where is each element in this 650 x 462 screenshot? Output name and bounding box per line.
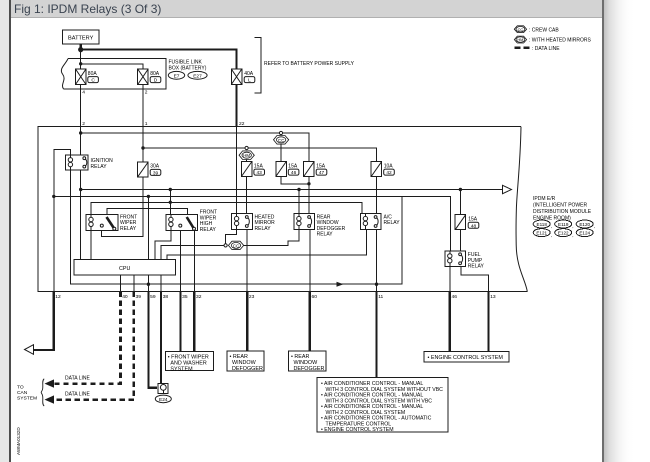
svg-text:DEFOGGER: DEFOGGER xyxy=(232,366,263,372)
battery B1 xyxy=(63,30,100,44)
node fusible box branch xyxy=(79,62,82,65)
svg-text:RELAY: RELAY xyxy=(384,220,401,226)
svg-text:DISTRIBUTION MODULE: DISTRIBUTION MODULE xyxy=(533,209,592,215)
wire bus A to rear defogger relay coil xyxy=(298,190,300,214)
svg-text:35: 35 xyxy=(182,294,188,300)
box front wiper and washer system xyxy=(166,352,214,373)
svg-text:IPDM E/R: IPDM E/R xyxy=(533,196,556,202)
label to can system xyxy=(17,385,37,402)
connector E122 xyxy=(555,229,574,238)
wire fusible C to IPDM pin 2 xyxy=(80,85,82,127)
svg-text:L: L xyxy=(248,78,251,84)
svg-text:BATTERY: BATTERY xyxy=(68,36,94,42)
wire ignition contact to bus A xyxy=(80,170,82,190)
svg-text:RELAY: RELAY xyxy=(317,232,334,238)
svg-text:46: 46 xyxy=(452,294,458,300)
node pin2 branch xyxy=(79,131,82,134)
svg-text:E124: E124 xyxy=(579,231,590,236)
svg-text:,: , xyxy=(572,224,573,229)
left gray strip xyxy=(0,0,9,462)
wire CPU to pin 38 xyxy=(160,275,162,292)
svg-text:: DATA LINE: : DATA LINE xyxy=(532,46,560,52)
svg-text:15A: 15A xyxy=(468,217,478,223)
svg-text:CAN: CAN xyxy=(17,390,28,396)
svg-text:59: 59 xyxy=(150,294,156,300)
wire front wiper relay coil to CPU xyxy=(90,230,92,259)
brace for can system xyxy=(41,379,44,406)
svg-text:HM: HM xyxy=(243,153,250,158)
svg-text:11: 11 xyxy=(378,294,383,300)
svg-text:CC: CC xyxy=(518,27,524,32)
front wiper high relay xyxy=(166,210,217,233)
wire fuse 43 to heated mirror relay contact xyxy=(246,177,248,214)
svg-text:E27: E27 xyxy=(193,73,202,79)
wire AC coil return to CPU xyxy=(167,229,366,259)
connector E7 xyxy=(168,71,184,79)
node bus A to rear defogger relay coil xyxy=(297,188,300,191)
node bus B at ignition coil xyxy=(52,195,55,198)
svg-text:39: 39 xyxy=(136,294,142,300)
wire battery down into fusible link box xyxy=(80,50,82,69)
svg-text:C: C xyxy=(91,78,95,84)
fuse L 40A xyxy=(231,69,255,85)
wire CC to fuse 46 xyxy=(280,144,282,161)
svg-text:RELAY: RELAY xyxy=(120,226,137,232)
wire pin 32 to wiper system box (bold) xyxy=(193,292,195,352)
svg-text:RELAY: RELAY xyxy=(255,226,272,232)
svg-text:80A: 80A xyxy=(150,71,160,77)
svg-text:HM: HM xyxy=(517,37,523,42)
fuse 42 10A xyxy=(371,162,394,177)
connector box E24 xyxy=(158,384,168,394)
node battery junction xyxy=(78,47,83,52)
coil stubs xyxy=(70,155,449,267)
wire C to front wiper relay coil and AC relay coil xyxy=(91,202,362,214)
wire CC option line xyxy=(161,245,224,259)
data line pin 40 (dashed bold) xyxy=(52,292,121,384)
svg-text:: CREW CAB: : CREW CAB xyxy=(529,27,559,33)
svg-text:• ENGINE CONTROL SYSTEM: • ENGINE CONTROL SYSTEM xyxy=(428,355,504,361)
svg-text:39: 39 xyxy=(153,170,159,176)
wire HM to fuse 43 xyxy=(246,160,248,162)
legend CC symbol xyxy=(514,26,559,34)
left dark border line xyxy=(9,0,11,462)
svg-text:BOX (BATTERY): BOX (BATTERY) xyxy=(169,65,207,71)
wire pin 38 to connector E24 (bold) xyxy=(160,292,162,384)
connector E121 xyxy=(533,229,552,238)
svg-text:,: , xyxy=(551,224,552,229)
connector E120 xyxy=(576,220,595,229)
svg-text:E122: E122 xyxy=(558,231,569,236)
wire fuse L to IPDM pin 22 (bold) xyxy=(236,85,238,127)
svg-text:32: 32 xyxy=(196,294,202,300)
node CC option circle 2 xyxy=(224,244,227,247)
rear window defogger relay xyxy=(294,214,346,238)
svg-text:13: 13 xyxy=(490,294,496,300)
wire pin 13 to engine control box (bold) xyxy=(487,292,489,352)
fuse 39 30A xyxy=(138,162,161,177)
svg-text:RELAY: RELAY xyxy=(200,227,217,233)
box engine control system xyxy=(424,352,509,362)
wire fuse 42 to AC relay contact xyxy=(376,177,378,214)
wire return bus E with arrowhead xyxy=(70,170,402,284)
svg-text:60: 60 xyxy=(312,294,318,300)
svg-text:CC: CC xyxy=(278,138,284,143)
wire pin 59 to connector E24 (bold) xyxy=(148,292,156,388)
svg-text:TO: TO xyxy=(17,385,24,391)
svg-text:DEFOGGER: DEFOGGER xyxy=(294,366,325,372)
fusible link D 80A xyxy=(138,69,161,85)
svg-text:(INTELLIGENT POWER: (INTELLIGENT POWER xyxy=(533,203,587,209)
wire bus A to front wiper high relay coil xyxy=(169,190,171,215)
wire heated mirror contact to pin 23 xyxy=(246,229,248,291)
arrow exit right xyxy=(503,185,512,193)
svg-text:DATA LINE: DATA LINE xyxy=(65,376,90,382)
svg-text:E7: E7 xyxy=(174,73,180,79)
node pin1 branch xyxy=(141,146,144,149)
wire pin 60 to defogger box 2 (bold) xyxy=(309,292,311,352)
wire bus to fuses 43 42 xyxy=(143,148,377,162)
svg-text:,: , xyxy=(572,232,573,237)
legend data line symbol xyxy=(515,46,561,52)
svg-text:46: 46 xyxy=(291,170,297,176)
svg-text:RELAY: RELAY xyxy=(468,264,485,270)
wire front wiper high contact to pin 35 xyxy=(179,230,181,291)
bus A (ignition output) xyxy=(81,189,503,191)
wire rear defogger contact to pin 60 xyxy=(309,229,311,291)
wire pin 35 to wiper system box (bold) xyxy=(179,292,181,352)
svg-text:4: 4 xyxy=(82,90,85,96)
svg-text:48: 48 xyxy=(471,223,477,229)
svg-text:15A: 15A xyxy=(288,163,298,169)
wire branch to fusible link D xyxy=(81,64,143,69)
node bus A to wiper relays xyxy=(169,188,172,191)
box air conditioner control xyxy=(317,378,448,433)
connector E119 xyxy=(555,220,574,229)
wire front wiper high coil to CPU xyxy=(155,230,171,259)
svg-text:E120: E120 xyxy=(579,222,590,227)
IPDM E/R box outline xyxy=(38,127,527,292)
A/C relay xyxy=(361,214,401,230)
wire bus A down to CPU xyxy=(80,190,82,260)
svg-text:REFER TO BATTERY POWER SUPPLY: REFER TO BATTERY POWER SUPPLY xyxy=(264,61,355,67)
fuel pump relay xyxy=(445,251,485,270)
wire bus B to CPU xyxy=(147,196,149,259)
node bus A at ignition xyxy=(79,188,82,191)
wire CC line to rear defogger coil xyxy=(244,229,299,245)
node wire C junction xyxy=(169,201,172,204)
svg-text:38: 38 xyxy=(163,294,169,300)
node bus B at CPU wire xyxy=(147,195,150,198)
svg-text:47: 47 xyxy=(319,170,325,176)
fuse 43 15A xyxy=(241,162,264,177)
fusible link C 80A xyxy=(76,69,99,85)
bracket refer to battery power supply xyxy=(255,38,262,94)
svg-text:40A: 40A xyxy=(244,71,254,77)
svg-text:15A: 15A xyxy=(254,163,264,169)
bus B (coil return top) xyxy=(54,196,451,251)
label IPDM E/R xyxy=(533,196,592,222)
svg-text:,: , xyxy=(551,232,552,237)
wire CPU to pin 39 xyxy=(133,275,135,292)
svg-text:E24: E24 xyxy=(159,397,168,403)
wire battery bus to 40A fuse (bold) xyxy=(81,50,237,69)
svg-text:40: 40 xyxy=(122,294,128,300)
wire fuel pump coil to pin 46 xyxy=(449,267,451,292)
svg-text:30A: 30A xyxy=(150,164,160,170)
svg-text:10A: 10A xyxy=(384,163,394,169)
label fusible link box xyxy=(169,59,207,71)
fuse 47 15A xyxy=(304,162,327,177)
wire bus B down to pin 12 xyxy=(53,196,55,291)
wire pin 11 to AC control box (bold) xyxy=(375,292,377,378)
svg-text:15A: 15A xyxy=(316,163,326,169)
arrow to left exit xyxy=(25,345,34,355)
connector E24 oval xyxy=(155,395,171,403)
connector E27 xyxy=(188,71,207,79)
svg-text:RELAY: RELAY xyxy=(91,164,108,170)
wire fusible D to IPDM pin 1 xyxy=(142,85,144,127)
title bar xyxy=(11,0,602,18)
wire fuse 39 to front wiper relay contact xyxy=(101,177,142,237)
CC hexagon xyxy=(274,136,289,145)
HM hexagon xyxy=(239,151,254,160)
wire fuse47 down to rear defogger relay contact xyxy=(308,177,310,214)
wire D front wiper contact feed xyxy=(107,208,187,214)
wire pin 23 to defogger box 1 (bold) xyxy=(246,292,248,352)
heated mirror relay xyxy=(232,214,275,232)
connector E118 xyxy=(533,220,552,229)
wire front wiper high output to pin 32 xyxy=(193,230,195,291)
svg-text:SYSTEM: SYSTEM xyxy=(170,366,193,372)
data line pin 39 (dashed bold) xyxy=(52,292,134,400)
wire bus to fuses 46 47 xyxy=(81,133,309,162)
wire AC contact to pin 11 xyxy=(376,229,378,291)
svg-text:E118: E118 xyxy=(537,222,548,227)
arrow data line 2 xyxy=(45,395,55,403)
svg-text:12: 12 xyxy=(55,294,61,300)
svg-text:AWMA0132D: AWMA0132D xyxy=(16,427,21,455)
wire pin 12 to left arrow (bold) xyxy=(32,292,54,350)
wire pin 1 down to fuse 39 xyxy=(142,127,144,162)
right shadow gradient xyxy=(604,0,650,462)
svg-text:CPU: CPU xyxy=(119,266,130,272)
node bus A to fuse 48 xyxy=(459,188,462,191)
arrowhead on return bus xyxy=(337,282,344,287)
wire CPU to pin 59 xyxy=(147,275,149,292)
wire fuse 48 to fuel pump relay contact xyxy=(459,230,461,251)
box rear window defogger 2 xyxy=(289,351,327,372)
node AC output on return bus xyxy=(375,283,378,286)
wire pin 2 down to ignition relay xyxy=(80,127,82,155)
ignition relay coil feed wire xyxy=(54,150,71,197)
svg-text:2: 2 xyxy=(145,90,148,96)
svg-text:• ENGINE CONTROL SYSTEM: • ENGINE CONTROL SYSTEM xyxy=(321,427,394,433)
box rear window defogger 1 xyxy=(227,351,264,372)
svg-text:,: , xyxy=(594,224,595,229)
wire CPU to pin 40 xyxy=(120,275,122,292)
node HM option circle xyxy=(245,146,248,149)
wire battery to junction (bold) xyxy=(80,44,82,50)
svg-text:: WITH HEATED MIRRORS: : WITH HEATED MIRRORS xyxy=(529,38,592,44)
fuse 46 15A xyxy=(276,162,299,177)
svg-text:DATA LINE: DATA LINE xyxy=(65,392,90,398)
CC hexagon 2 xyxy=(228,241,243,249)
arrow data line 1 xyxy=(45,379,55,387)
ignition relay IGN xyxy=(66,155,114,170)
fuse 48 15A xyxy=(455,215,479,230)
svg-text:D: D xyxy=(154,78,158,84)
svg-text:23: 23 xyxy=(249,294,255,300)
svg-text:42: 42 xyxy=(386,170,392,176)
svg-text:43: 43 xyxy=(257,170,263,176)
front wiper relay xyxy=(86,214,137,232)
wire pin 22 down to heated mirror relay coil xyxy=(236,127,238,214)
node fuses 46-47 join xyxy=(307,182,310,185)
wire bus A to fuse 48 xyxy=(459,190,461,215)
wire heated mirror coil to CC circle xyxy=(226,229,237,243)
legend HM symbol xyxy=(514,36,591,44)
node CC option circle xyxy=(279,131,282,134)
svg-text:SYSTEM: SYSTEM xyxy=(17,395,37,401)
fusible link box (battery) outline xyxy=(64,59,167,89)
svg-text:80A: 80A xyxy=(88,71,98,77)
svg-text:CC: CC xyxy=(233,243,239,248)
wire fuse46 to junction under fuse47 xyxy=(281,177,309,184)
right dark border line xyxy=(602,0,604,462)
wire pin 46 to engine control box (bold) xyxy=(449,292,451,352)
CPU xyxy=(74,260,176,275)
connector E124 xyxy=(576,229,593,237)
node return bus at pin 59 xyxy=(147,283,150,286)
wire fuel pump contact to pin 13 xyxy=(461,267,489,292)
svg-text:E119: E119 xyxy=(558,222,569,227)
svg-text:E121: E121 xyxy=(536,231,547,236)
